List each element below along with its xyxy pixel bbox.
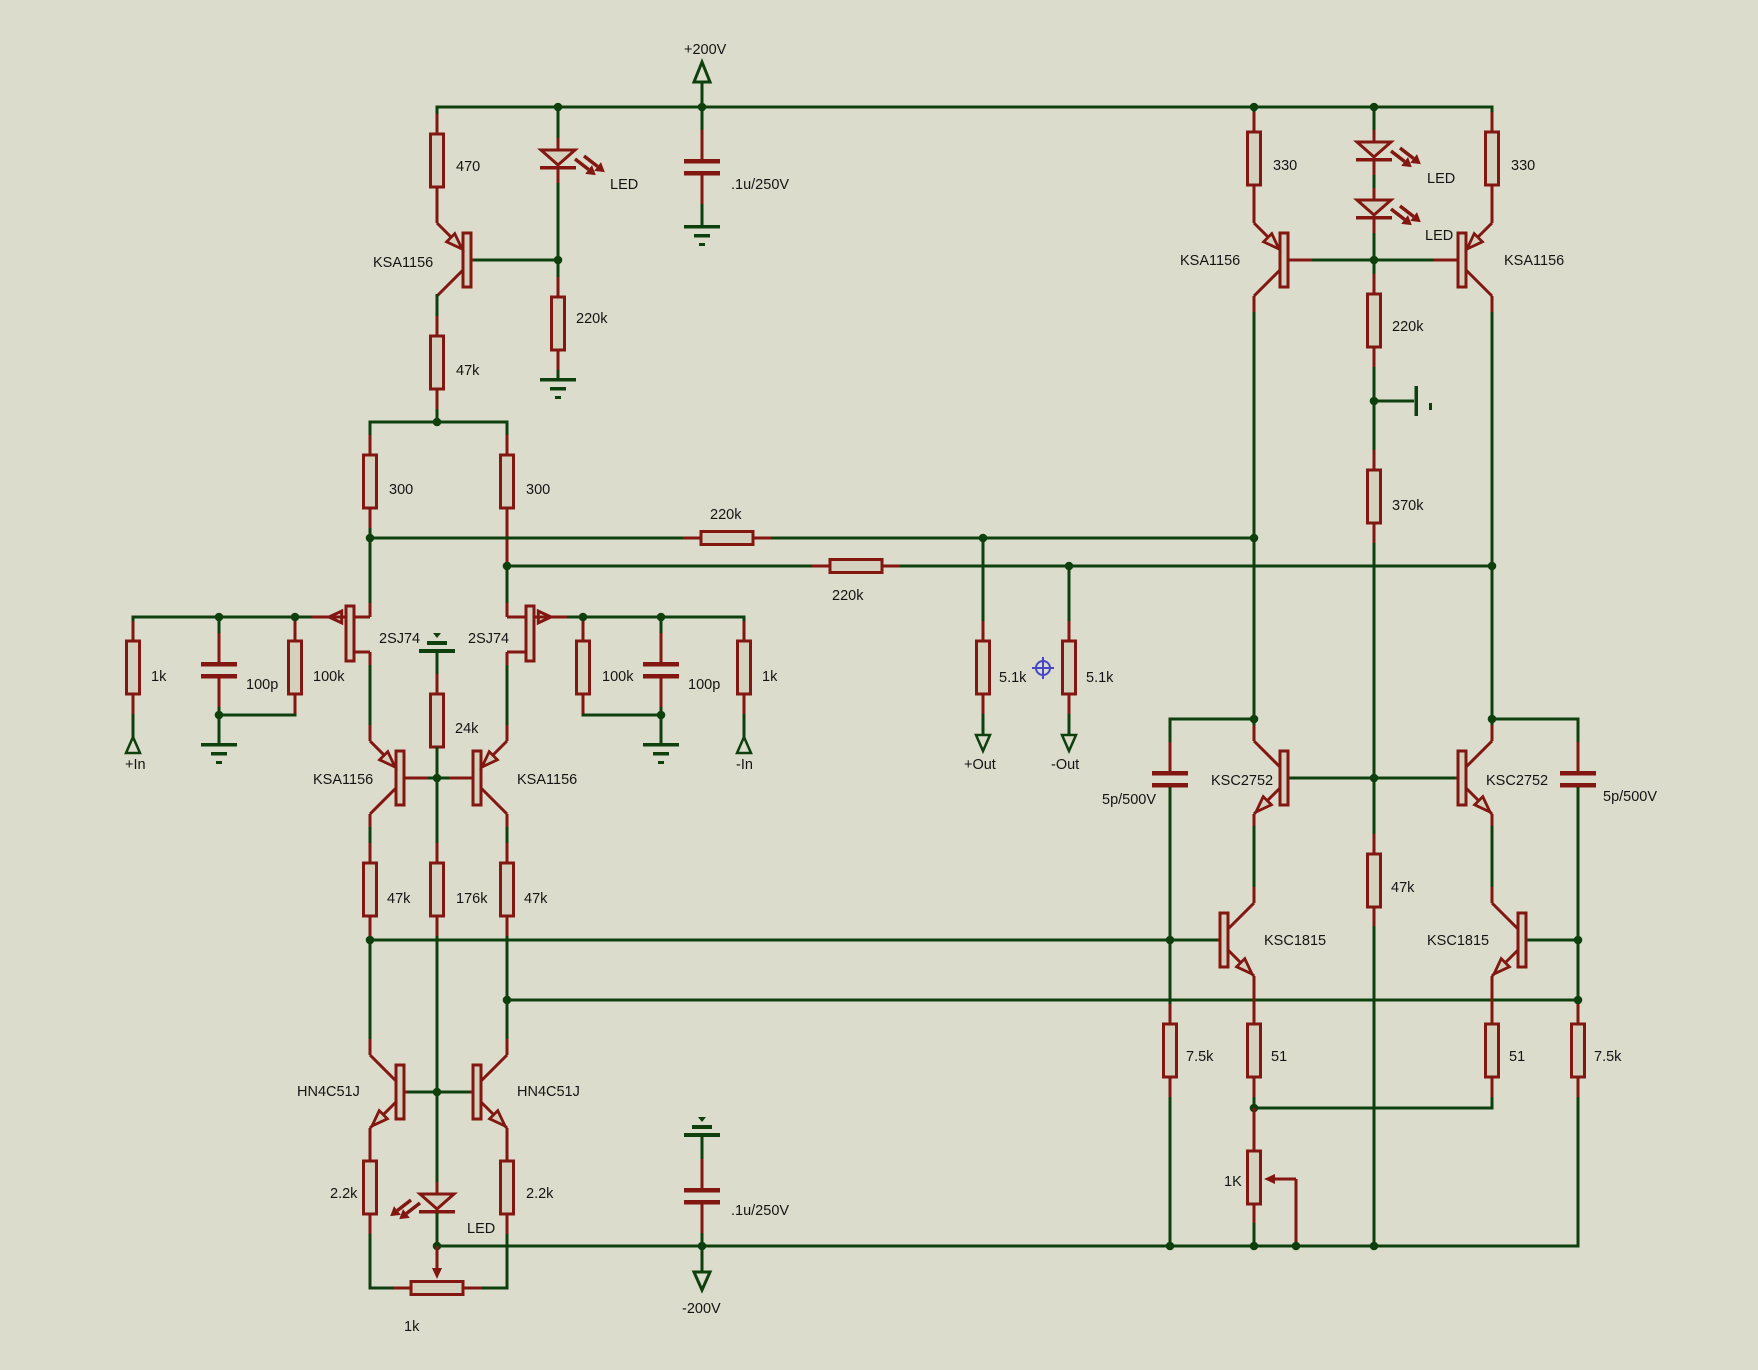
- wire 100kL bottom: [294, 714, 297, 717]
- wire KSA-RR collector down: [1491, 312, 1494, 741]
- resistor 220k top-left: [557, 277, 560, 297]
- wire node B rail: [507, 565, 1492, 568]
- resistor 300 left: [369, 435, 372, 455]
- wire -Out column: [1068, 566, 1071, 641]
- svg-text:220k: 220k: [832, 588, 864, 604]
- junction top rail at LED pair: [1370, 103, 1379, 112]
- wire 2752R emitter to 1815R collector: [1491, 826, 1494, 903]
- wire bottom rail: [437, 1245, 1578, 1248]
- svg-text:300: 300: [526, 482, 550, 498]
- svg-text:.1u/250V: .1u/250V: [731, 177, 789, 193]
- svg-text:HN4C51J: HN4C51J: [517, 1084, 580, 1100]
- svg-text:470: 470: [456, 159, 480, 175]
- wire 1815R emitter to 51R: [1491, 976, 1494, 1024]
- wire JFET-L drain: [369, 538, 372, 604]
- wire ant to 24k: [436, 651, 439, 694]
- svg-text:220k: 220k: [710, 507, 742, 523]
- junction rail/5pR node: [1574, 996, 1583, 1005]
- svg-text:1k: 1k: [151, 669, 167, 685]
- svg-text:100p: 100p: [688, 677, 720, 693]
- potentiometer 1k bottom: [393, 1287, 411, 1290]
- svg-text:KSC1815: KSC1815: [1427, 933, 1489, 949]
- svg-text:KSA1156: KSA1156: [313, 772, 373, 788]
- wire bottom left block: [219, 714, 295, 717]
- wire 47kB bottom: [506, 936, 509, 1000]
- wire 1815L base: [1170, 939, 1218, 942]
- capacitor 5p/500V right: [1577, 742, 1580, 771]
- resistor 220k horizontal 2: [812, 565, 830, 568]
- ground under 100p right: [660, 715, 663, 744]
- wire 1kL to +In: [132, 714, 135, 738]
- wire 330R top corner: [1491, 106, 1494, 133]
- wire base rail right KSA pair: [1292, 259, 1455, 262]
- wire between LEDs: [1373, 175, 1376, 200]
- capacitor 100p right: [660, 633, 663, 662]
- wire 100kL top: [294, 617, 297, 641]
- svg-text:KSA1156: KSA1156: [373, 255, 433, 271]
- wire 100pR top: [660, 617, 663, 662]
- svg-text:-200V: -200V: [682, 1301, 721, 1317]
- resistor 47k B: [506, 843, 509, 863]
- resistor 100k right: [582, 621, 585, 641]
- wire KSA-ML collector to 47kA: [369, 827, 372, 863]
- wire 1815L emitter to 51L: [1253, 976, 1256, 1024]
- junction node B right end: [1488, 562, 1497, 571]
- potentiometer 1K right: [1253, 1108, 1256, 1151]
- wire base rail mid KSA pair: [407, 777, 470, 780]
- wire 5pR bottom: [1577, 787, 1580, 1024]
- wire 2.2kL down corner: [369, 1234, 372, 1290]
- junction 47kB/rail: [503, 996, 512, 1005]
- wire JFET-R source to KSA-MR emitter: [506, 665, 509, 741]
- LED right 2: [1373, 188, 1376, 200]
- junction pot rail: [1250, 1242, 1259, 1251]
- svg-text:5p/500V: 5p/500V: [1603, 789, 1657, 805]
- wire collector to 47k: [436, 294, 439, 336]
- wire cap to ground: [701, 174, 704, 227]
- wire 51L to pot node: [1253, 1097, 1256, 1108]
- resistor 5.1k left: [982, 621, 985, 641]
- wire KSA-RL collector down: [1253, 312, 1256, 741]
- wire ant to cap: [701, 1137, 704, 1163]
- junction 2752R collector node: [1488, 715, 1497, 724]
- wire LED1 column: [557, 107, 560, 150]
- bar terminal above bottom cap: [698, 1117, 706, 1122]
- transistor KSA1156 mid-right: [481, 741, 507, 767]
- transistor KSC1815 left: [1228, 903, 1254, 929]
- junction gate/100kR: [579, 613, 588, 622]
- svg-text:+Out: +Out: [964, 757, 996, 773]
- terminal +In: [126, 737, 140, 753]
- wire mid rail y940: [370, 939, 1217, 942]
- svg-text:330: 330: [1273, 158, 1297, 174]
- wire 2.2kR down corner: [506, 1234, 509, 1290]
- svg-text:-In: -In: [736, 757, 753, 773]
- wire 7.5kR to rail corner: [1577, 1097, 1580, 1248]
- JFET 2SJ74 left: [354, 616, 370, 619]
- svg-text:7.5k: 7.5k: [1594, 1049, 1622, 1065]
- svg-text:47k: 47k: [456, 363, 480, 379]
- wire 1kR to -In: [743, 714, 746, 738]
- junction LED/220k/base node: [554, 256, 563, 265]
- junction pot node: [1250, 1104, 1259, 1113]
- transistor HN4C51J left: [370, 1055, 396, 1081]
- wire LED2 to base node: [1373, 233, 1376, 294]
- svg-text:-Out: -Out: [1051, 757, 1079, 773]
- wire HN-L emitter to 2.2kL: [369, 1128, 372, 1161]
- resistor 5.1k right: [1068, 621, 1071, 641]
- wire HN-R collector: [506, 1000, 509, 1055]
- wire cap to rail: [701, 1233, 704, 1246]
- junction splitter: [433, 418, 442, 427]
- wire 7.5kL to rail: [1169, 1097, 1172, 1246]
- wire 300R down to node B: [506, 562, 509, 566]
- junction node A right end: [1250, 534, 1259, 543]
- wire LED1 to base node: [557, 168, 560, 297]
- junction base 1815R node: [1574, 936, 1583, 945]
- wire lower rail y1000: [507, 999, 1578, 1002]
- wire base node to 176k: [436, 778, 439, 863]
- svg-text:KSA1156: KSA1156: [1180, 253, 1240, 269]
- junction 47kR rail: [1370, 1242, 1379, 1251]
- svg-text:1k: 1k: [404, 1319, 420, 1335]
- resistor 47k A: [369, 843, 372, 863]
- svg-text:176k: 176k: [456, 891, 488, 907]
- junction gate/100kL: [291, 613, 300, 622]
- junction top rail at LED: [554, 103, 563, 112]
- resistor 1k right: [743, 621, 746, 641]
- wire 5pR top: [1492, 718, 1578, 721]
- resistor 47k right: [1373, 834, 1376, 854]
- resistor 51 left: [1253, 1004, 1256, 1024]
- svg-text:KSA1156: KSA1156: [1504, 253, 1564, 269]
- wire JFET-R drain: [506, 566, 509, 604]
- ground under 220k: [540, 378, 576, 382]
- svg-text:+In: +In: [125, 757, 146, 773]
- junction 100pR bottom: [657, 711, 666, 720]
- wire HN-L collector: [369, 940, 372, 1055]
- junction KSC2752 base node: [1370, 774, 1379, 783]
- wire 470 top corner: [436, 106, 439, 135]
- svg-text:51: 51: [1271, 1049, 1287, 1065]
- svg-text:+200V: +200V: [684, 42, 727, 58]
- wire 176k bottom through: [436, 936, 439, 1092]
- svg-text:5p/500V: 5p/500V: [1102, 792, 1156, 808]
- transistor KSA1156 top-left: [436, 188, 439, 223]
- wire 2752L emitter to 1815L collector: [1253, 826, 1256, 903]
- wire to 300L: [369, 421, 372, 457]
- wire 24k to base node: [436, 747, 439, 778]
- wire 51R corner: [1491, 1097, 1494, 1110]
- junction pot arrow rail: [1292, 1242, 1301, 1251]
- wire pot bottom to rail: [1253, 1223, 1256, 1246]
- wire 5.1kL to +Out: [982, 714, 985, 736]
- wire 47k right bottom: [1373, 926, 1376, 1246]
- resistor 470: [436, 114, 439, 134]
- wire 220k to terminal node: [1373, 367, 1376, 470]
- wire +In column: [132, 616, 135, 642]
- svg-text:.1u/250V: .1u/250V: [731, 1203, 789, 1219]
- resistor 370k: [1373, 450, 1376, 470]
- junction LED bottom rail: [433, 1242, 442, 1251]
- resistor 47k top-left: [436, 316, 439, 336]
- junction mid base node: [433, 774, 442, 783]
- wire 47kA bottom: [369, 936, 372, 940]
- svg-text:47k: 47k: [387, 891, 411, 907]
- junction -Out node: [1065, 562, 1074, 571]
- svg-text:2.2k: 2.2k: [526, 1186, 554, 1202]
- junction top rail at 330L: [1250, 103, 1259, 112]
- junction terminal node: [1370, 397, 1379, 406]
- svg-text:5.1k: 5.1k: [999, 670, 1027, 686]
- wire HN-R emitter to 2.2kR: [506, 1128, 509, 1161]
- LED top-left: [557, 138, 560, 150]
- wire 5pL top: [1170, 718, 1254, 721]
- LED bottom: [436, 1182, 439, 1194]
- wire base KSA1156-TL to LED node: [474, 259, 558, 262]
- wire 100pR bottom: [660, 676, 663, 717]
- wire gate rail right: [567, 616, 744, 619]
- resistor 220k horizontal 1: [683, 537, 701, 540]
- svg-text:51: 51: [1509, 1049, 1525, 1065]
- svg-text:1K: 1K: [1224, 1174, 1242, 1190]
- svg-text:220k: 220k: [1392, 319, 1424, 335]
- power +200V terminal: [694, 62, 710, 82]
- junction 47kA bottom: [366, 936, 375, 945]
- wire node A rail: [370, 537, 1254, 540]
- wire 370k down to KSC bases: [1373, 543, 1376, 854]
- wire +Out column: [982, 538, 985, 641]
- wire 220k to ground: [557, 349, 560, 380]
- wire 1815R base: [1528, 939, 1578, 942]
- resistor 7.5k left: [1169, 1004, 1172, 1024]
- ground under 100p left: [218, 715, 221, 744]
- wire top +200V rail: [437, 106, 1492, 109]
- svg-text:2SJ74: 2SJ74: [379, 631, 420, 647]
- power -200V terminal: [701, 1246, 704, 1273]
- terminal -Out: [1062, 735, 1076, 751]
- wire 47k to splitter node: [436, 409, 439, 422]
- transistor KSA1156 right-left: [1253, 188, 1256, 223]
- svg-text:2.2k: 2.2k: [330, 1186, 358, 1202]
- resistor 220k right: [1373, 274, 1376, 294]
- transistor KSA1156 right-right: [1491, 188, 1494, 223]
- wire 300L down to node A: [369, 528, 372, 538]
- capacitor .1u/250V bottom: [701, 1159, 704, 1188]
- resistor 176k: [436, 843, 439, 863]
- svg-text:HN4C51J: HN4C51J: [297, 1084, 360, 1100]
- wire pot node rail: [1254, 1107, 1492, 1110]
- transistor KSC2752 right: [1466, 741, 1492, 767]
- junction 7.5kL rail: [1166, 1242, 1175, 1251]
- svg-text:47k: 47k: [1391, 880, 1415, 896]
- resistor 2.2k left: [369, 1141, 372, 1161]
- wire KSC2752 base rail: [1290, 777, 1455, 780]
- wire splitter horizontal: [370, 421, 507, 424]
- junction 2752L collector node: [1250, 715, 1259, 724]
- JFET 2SJ74 right: [507, 616, 526, 619]
- resistor 24k: [436, 674, 439, 694]
- wire 5.1kR to -Out: [1068, 714, 1071, 736]
- svg-text:LED: LED: [610, 177, 638, 193]
- wire +200V cap top: [701, 107, 704, 160]
- svg-text:KSA1156: KSA1156: [517, 772, 577, 788]
- ground under top cap: [684, 225, 720, 229]
- svg-text:100k: 100k: [313, 669, 345, 685]
- wire 100pL top: [218, 617, 221, 662]
- transistor KSC2752 left: [1254, 741, 1280, 767]
- svg-text:LED: LED: [1427, 171, 1455, 187]
- resistor 7.5k right: [1577, 1004, 1580, 1024]
- terminal +Out: [976, 735, 990, 751]
- svg-text:300: 300: [389, 482, 413, 498]
- svg-text:LED: LED: [467, 1221, 495, 1237]
- svg-text:220k: 220k: [576, 311, 608, 327]
- default terminal right: [1374, 400, 1414, 403]
- svg-text:1k: 1k: [762, 669, 778, 685]
- junction base 1815L node: [1166, 936, 1175, 945]
- svg-text:LED: LED: [1425, 228, 1453, 244]
- terminal -In: [737, 737, 751, 753]
- wire base rail HN pair: [407, 1091, 470, 1094]
- svg-text:2SJ74: 2SJ74: [468, 631, 509, 647]
- capacitor 100p left: [218, 633, 221, 662]
- junction +Out node: [979, 534, 988, 543]
- junction 100pL bottom: [215, 711, 224, 720]
- junction right base node: [1370, 256, 1379, 265]
- capacitor 5p/500V left: [1169, 742, 1172, 771]
- wire 5pL bottom: [1169, 787, 1172, 1024]
- transistor HN4C51J right: [481, 1055, 507, 1081]
- origin marker: [1036, 661, 1050, 675]
- svg-text:370k: 370k: [1392, 498, 1424, 514]
- wire 100kR bottom: [582, 714, 585, 717]
- capacitor .1u/250V top: [701, 130, 704, 159]
- svg-text:100p: 100p: [246, 677, 278, 693]
- bar terminal between JFETs: [433, 633, 441, 638]
- wire JFET-L source to KSA-ML emitter: [369, 665, 372, 741]
- svg-text:7.5k: 7.5k: [1186, 1049, 1214, 1065]
- svg-text:24k: 24k: [455, 721, 479, 737]
- wire gate rail left: [133, 616, 312, 619]
- resistor 51 right: [1491, 1004, 1494, 1024]
- wire LED pair top: [1373, 107, 1376, 142]
- svg-text:5.1k: 5.1k: [1086, 670, 1114, 686]
- junction node B left end: [503, 562, 512, 571]
- wire 100pL bottom: [218, 676, 221, 717]
- svg-text:KSC2752: KSC2752: [1211, 773, 1273, 789]
- resistor 100k left: [294, 621, 297, 641]
- svg-text:KSC1815: KSC1815: [1264, 933, 1326, 949]
- LED right 1: [1373, 130, 1376, 142]
- svg-text:KSC2752: KSC2752: [1486, 773, 1548, 789]
- wire 100kR top: [582, 617, 585, 641]
- resistor 330 right: [1491, 112, 1494, 132]
- resistor 2.2k right: [506, 1141, 509, 1161]
- junction node A left end: [366, 534, 375, 543]
- wire HN base node to LED: [436, 1092, 439, 1194]
- junction top rail at cap: [698, 103, 707, 112]
- junction gate/100pR: [657, 613, 666, 622]
- resistor 1k left: [132, 621, 135, 641]
- junction gate/100pL: [215, 613, 224, 622]
- junction HN base node: [433, 1088, 442, 1097]
- svg-text:330: 330: [1511, 158, 1535, 174]
- wire bottom right block: [583, 714, 661, 717]
- wire to 300R: [506, 421, 509, 457]
- wire -In column: [743, 616, 746, 642]
- wire 330L top corner: [1253, 106, 1256, 133]
- wire LED to bottom rail: [436, 1213, 439, 1246]
- resistor 300 right: [506, 435, 509, 455]
- transistor KSA1156 mid-left: [370, 741, 396, 767]
- transistor KSC1815 right: [1492, 903, 1518, 929]
- svg-text:100k: 100k: [602, 669, 634, 685]
- junction bottom rail cap: [698, 1242, 707, 1251]
- wire KSA-MR collector to 47kB: [506, 827, 509, 863]
- svg-text:47k: 47k: [524, 891, 548, 907]
- resistor 330 left: [1253, 112, 1256, 132]
